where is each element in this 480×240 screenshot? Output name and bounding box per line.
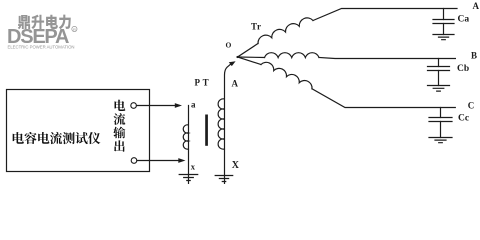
- wire: [438, 59, 440, 67]
- node O: [236, 56, 238, 58]
- PT secondary winding: [218, 63, 232, 224]
- ground: [428, 86, 450, 92]
- inductor Tr phase B winding: [265, 53, 319, 58]
- inductor Tr phase C winding: [261, 62, 312, 88]
- capacitor Cb: [428, 67, 450, 71]
- svg-text:Tr: Tr: [251, 22, 261, 32]
- ground secondary: [215, 176, 233, 182]
- logo chinese 鼎升电力: [18, 15, 30, 29]
- PT core: [205, 115, 208, 146]
- wire: [238, 44, 259, 58]
- ground: [433, 35, 454, 40]
- tester box 电容电流测试仪: [7, 90, 150, 172]
- arrow to node O: [231, 63, 233, 64]
- capacitor Ca: [433, 20, 454, 24]
- PT primary winding: [183, 106, 188, 189]
- svg-text:O: O: [226, 40, 232, 49]
- wire top output with arrow: [137, 105, 176, 107]
- svg-text:B: B: [471, 51, 477, 61]
- wire: [313, 9, 457, 21]
- wire: [238, 57, 262, 65]
- svg-text:x: x: [191, 161, 196, 171]
- svg-text:A: A: [473, 1, 480, 11]
- logo registered mark: [72, 26, 77, 31]
- wire: [443, 9, 445, 20]
- wire: [312, 89, 455, 108]
- box vertical label 电流输出: [115, 100, 126, 111]
- terminal bottom: [131, 158, 137, 164]
- svg-text:Ca: Ca: [458, 15, 470, 25]
- inductor Tr phase A winding: [258, 18, 313, 44]
- svg-text:Cc: Cc: [458, 114, 469, 124]
- ground: [429, 138, 452, 143]
- wire bottom output with arrow: [137, 160, 179, 162]
- terminal top: [131, 103, 137, 109]
- wire: [440, 108, 442, 118]
- wire: [443, 24, 445, 35]
- capacitor Cc: [429, 118, 452, 122]
- svg-text:C: C: [468, 100, 475, 110]
- wire: [440, 122, 442, 138]
- wire: [238, 56, 265, 59]
- wire: [438, 71, 440, 86]
- svg-text:ELECTRIC POWER AUTOMATION: ELECTRIC POWER AUTOMATION: [8, 45, 75, 50]
- wire: [319, 58, 455, 59]
- svg-text:a: a: [191, 100, 196, 110]
- svg-text:R: R: [73, 27, 76, 32]
- svg-text:Cb: Cb: [457, 64, 469, 74]
- svg-text:A: A: [232, 79, 239, 89]
- ground primary: [179, 175, 198, 181]
- box label 电容电流测试仪: [13, 132, 24, 144]
- svg-text:X: X: [232, 160, 240, 171]
